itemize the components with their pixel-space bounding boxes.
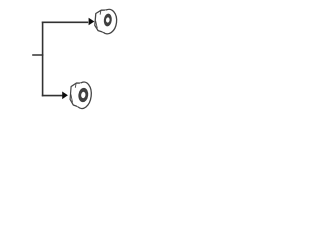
nut bottom: [70, 81, 93, 109]
wire: bottom branch: [42, 95, 63, 97]
wire: left tick: [32, 54, 43, 56]
wire: top branch: [42, 21, 88, 23]
arrowhead bottom: [62, 92, 68, 100]
arrowhead top: [89, 18, 95, 26]
nut top: [95, 8, 118, 34]
wire: vertical trunk: [42, 22, 44, 97]
